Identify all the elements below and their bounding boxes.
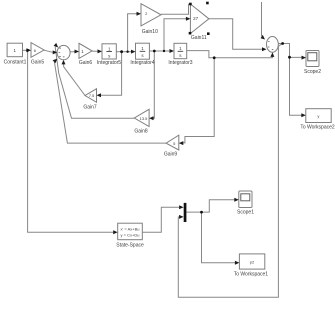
svg-text:7.5: 7.5 [89, 93, 95, 98]
svg-text:13.5: 13.5 [140, 116, 149, 121]
svg-text:Scope1: Scope1 [237, 210, 254, 216]
svg-text:Integrator4: Integrator4 [130, 60, 154, 66]
selection handle Gain11 top-right [206, 2, 209, 5]
svg-text:To Workspace1: To Workspace1 [234, 272, 269, 278]
arrowhead into Integrator3 [170, 49, 175, 53]
selection handle Gain11 bottom-right [207, 32, 210, 35]
arrowhead into sum1 bottom [62, 60, 66, 65]
junction to Gain9 [213, 56, 216, 59]
wire down to workspace2 [290, 57, 302, 115]
wire gain7 to sum1 bottom [64, 64, 86, 96]
gain Gain11 [190, 4, 209, 34]
gain Gain8 [134, 109, 149, 126]
junction to Gain7 [120, 50, 123, 53]
arrowhead into sum2 top [261, 35, 265, 40]
svg-text:27: 27 [193, 16, 199, 21]
wire feedback sum2 down [178, 44, 282, 298]
selection handle Gain11 bottom-left [189, 32, 192, 35]
svg-text:Scope2: Scope2 [304, 69, 321, 75]
constant Constant1 [7, 43, 22, 57]
sign marks sum1 [59, 48, 65, 57]
junction feedback [281, 42, 284, 45]
junction to Gain10 [126, 51, 128, 53]
arrowhead into Integrator5 [98, 49, 103, 53]
svg-text:Integrator3: Integrator3 [168, 60, 192, 66]
wire up to gain11 [164, 19, 186, 51]
integrator Integrator5 [102, 44, 116, 59]
integrator Integrator4 [136, 43, 150, 59]
arrowhead into sum1 left [53, 50, 58, 54]
arrowhead into Scope2 [302, 56, 307, 60]
arrowhead into Gain8 [149, 116, 154, 120]
sum block sum1 [57, 45, 70, 59]
wire gain8 to sum1 upper-left [55, 47, 134, 118]
to-workspace To Workspace2 [306, 109, 331, 123]
arrowhead into To Workspace2 [301, 113, 306, 117]
scope Scope1 [239, 191, 252, 208]
arrowhead into Mux input1 [179, 205, 184, 209]
wire sum2 to scope2 [278, 44, 302, 58]
junction mux out [200, 211, 203, 214]
svg-text:Gain10: Gain10 [142, 29, 158, 35]
gain Gain6 [79, 43, 92, 58]
wire constant down to state-space [28, 50, 114, 232]
arrowhead into sum1 lower-left [53, 59, 58, 64]
wire down to gain8 [153, 51, 154, 118]
wire state-space to mux [142, 207, 179, 232]
wire integrator4 to integrator3 [149, 50, 169, 52]
svg-text:Gain11: Gain11 [191, 35, 207, 41]
wire integrator3 to sum2 bottom [187, 51, 273, 58]
wire down to gain7 [101, 52, 122, 96]
arrowhead into Gain10 [137, 12, 142, 16]
junction to Gain8 [153, 50, 156, 53]
integrator Integrator3 [174, 43, 187, 58]
gain Gain9 [166, 135, 179, 150]
wire constant to gain5 [28, 49, 31, 51]
arrowhead into Mux input2 [179, 215, 184, 219]
svg-text:x' = Ax+Bu: x' = Ax+Bu [121, 227, 140, 232]
arrowhead into sum2 left [262, 47, 267, 51]
wire gain9 to sum1 lower-left [54, 62, 166, 143]
mux Mux [184, 203, 187, 222]
svg-text:Gain8: Gain8 [134, 129, 148, 135]
arrowhead into Integrator4 [131, 50, 136, 54]
junction scope2 [288, 56, 291, 59]
junction after Constant1 [26, 49, 29, 52]
to-workspace To Workspace1 [239, 254, 264, 269]
selection handle Gain11 top-left [189, 3, 192, 6]
state-space State-Space [118, 223, 143, 240]
arrowhead into Gain5 [26, 48, 31, 52]
wire integrator5 to integrator4 [116, 51, 131, 53]
wire up to gain10 [128, 14, 137, 52]
wire gain10 to gain11 corner [161, 4, 190, 14]
arrowhead into State-Space [113, 230, 118, 234]
sign marks sum2 [268, 41, 274, 49]
wire down to gain9 [183, 58, 214, 143]
svg-text:Gain7: Gain7 [83, 105, 97, 111]
gain Gain5 [31, 43, 44, 58]
svg-text:Gain5: Gain5 [31, 60, 45, 66]
wire top into sum2 [261, 2, 263, 36]
svg-text:p2: p2 [250, 260, 255, 265]
svg-text:State-Space: State-Space [116, 243, 144, 249]
svg-text:Constant1: Constant1 [4, 60, 27, 66]
arrowhead into sum1 upper-left [54, 43, 59, 48]
svg-text:Integrator5: Integrator5 [97, 60, 121, 66]
arrowhead into Scope1 [234, 198, 239, 202]
wire [23, 49, 28, 51]
arrowhead into sum2 bottom [270, 52, 274, 57]
arrowhead into Gain7 [97, 93, 102, 97]
wire gain11 to sum2 [209, 19, 262, 50]
junction to Gain11 [163, 50, 165, 52]
svg-text:y: y [317, 114, 319, 119]
scope Scope2 [306, 51, 319, 67]
wire mux to workspace1 [202, 212, 236, 263]
wire gain5 to sum1 [44, 50, 53, 52]
svg-text:Gain6: Gain6 [79, 60, 93, 66]
svg-text:Gain9: Gain9 [164, 152, 178, 158]
wire gain6 to integrator5 [92, 50, 98, 52]
arrowhead into Gain6 [75, 50, 80, 54]
svg-text:To Workspace2: To Workspace2 [300, 125, 335, 131]
sum block sum2 [267, 37, 279, 53]
gain Gain7 [85, 89, 97, 103]
wire sum1 to gain6 [70, 51, 75, 53]
arrowhead into Gain11 [186, 17, 191, 21]
svg-text:y = Cx+Du: y = Cx+Du [121, 233, 140, 238]
arrowhead into To Workspace1 [235, 261, 240, 265]
gain Gain10 [141, 4, 161, 26]
arrowhead into Gain9 [179, 141, 184, 145]
wire mux to scope1 [186, 200, 234, 212]
fraction bars integrators [106, 50, 183, 52]
